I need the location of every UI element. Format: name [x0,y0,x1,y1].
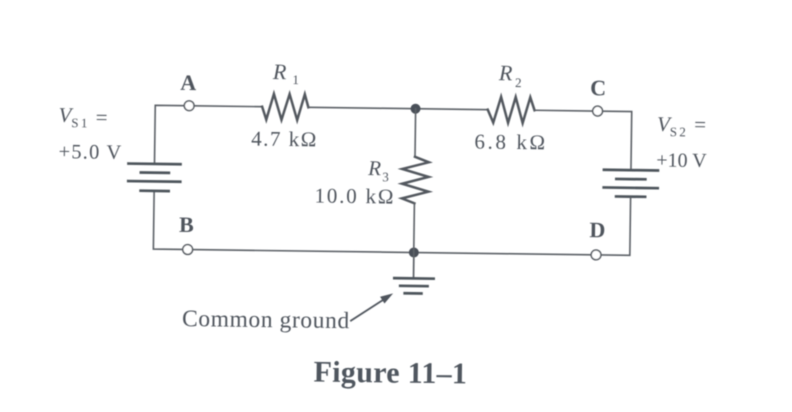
junction dot (bottom of R3, common ground) [409,247,419,257]
wire R1 to middle node to R2 [308,107,487,109]
svg-text:4.7 kΩ: 4.7 kΩ [251,126,318,151]
battery VS1 [128,164,180,192]
wire R3 to bottom junction [413,203,416,252]
resistor R2 [488,97,535,123]
svg-text:+5.0 V: +5.0 V [58,141,122,164]
svg-text:3: 3 [382,169,389,184]
svg-text:D: D [589,217,605,242]
svg-text:C: C [590,75,606,100]
ground stub wire [413,252,415,277]
svg-text:R: R [367,156,381,180]
wire node A to R1 [194,105,262,108]
svg-text:VS1=: VS1= [58,103,107,131]
wire VS2 to bottom-right corner to node D [601,197,631,255]
svg-text:6.8 kΩ: 6.8 kΩ [474,129,548,154]
resistor R1 [262,94,309,120]
svg-text:VS2=: VS2= [657,112,706,140]
wire node D to bottom junction to node B [193,250,591,255]
wire node B to bottom-left corner to VS1 [153,192,183,250]
svg-text:Common ground: Common ground [182,306,350,334]
wire middle node down to R3 [414,109,417,157]
resistor R3 [402,157,429,204]
node C [593,106,603,116]
svg-text:10.0 kΩ: 10.0 kΩ [314,183,395,208]
svg-text:B: B [179,212,194,237]
svg-text:+10 V: +10 V [656,149,707,172]
ground symbol [394,278,433,294]
svg-text:Figure 11–1: Figure 11–1 [313,355,467,390]
svg-text:1: 1 [292,72,299,87]
svg-text:R: R [272,59,287,84]
junction dot (top of R3) [410,104,420,114]
node B [183,245,193,255]
annotation arrow to ground [351,293,393,321]
wire R2 to node C [535,109,593,112]
svg-text:A: A [180,70,196,95]
node D [591,250,601,260]
wire node C to top-right corner to VS2 [602,111,632,169]
svg-text:R: R [498,60,513,85]
battery VS2 [604,170,658,197]
wire top-left from VS1 to node A [154,105,184,164]
node A [184,101,194,111]
svg-text:2: 2 [515,75,522,90]
